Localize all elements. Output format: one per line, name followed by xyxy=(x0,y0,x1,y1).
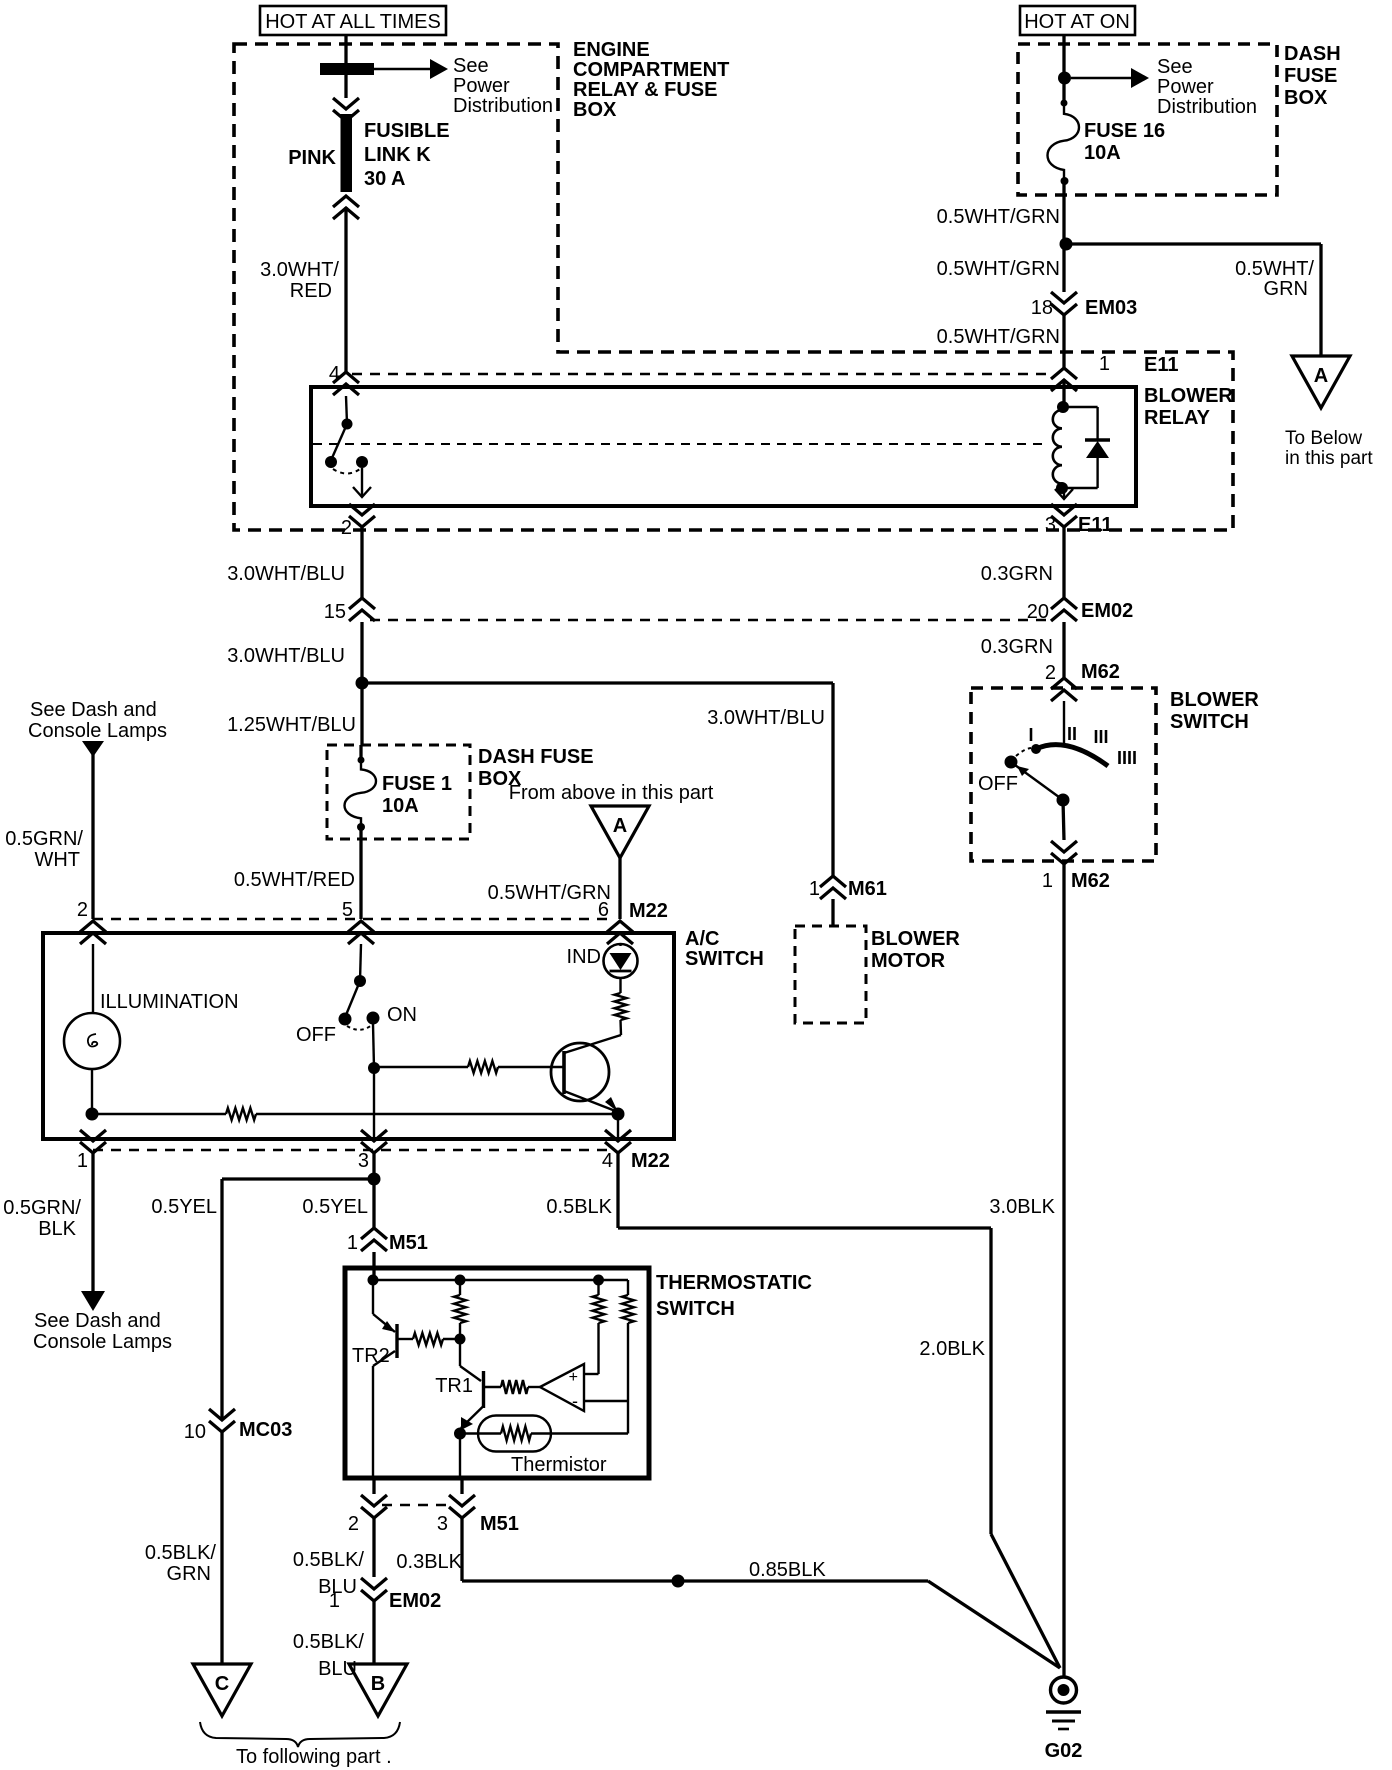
svg-text:Console Lamps: Console Lamps xyxy=(28,720,167,742)
reference triangle C xyxy=(193,1664,251,1716)
pin 4 chevrons xyxy=(605,1130,631,1141)
arrow from dash lamps xyxy=(82,741,104,757)
svg-text:0.5BLK: 0.5BLK xyxy=(546,1196,612,1218)
wire bus bar to fusible link xyxy=(344,75,347,98)
wire 0.3GRN to M62 xyxy=(1062,622,1065,678)
svg-text:2: 2 xyxy=(77,899,88,921)
svg-text:A: A xyxy=(613,815,627,837)
svg-text:0.5BLK/: 0.5BLK/ xyxy=(145,1542,217,1564)
svg-text:MOTOR: MOTOR xyxy=(871,950,946,972)
svg-text:0.3BLK: 0.3BLK xyxy=(396,1551,462,1573)
svg-text:1: 1 xyxy=(1099,353,1110,375)
connector E11 dashed face line (pin 4 to pin 1) xyxy=(352,373,1052,375)
svg-text:0.5WHT/GRN: 0.5WHT/GRN xyxy=(488,882,611,904)
engine compartment relay & fuse box dashed outline xyxy=(234,44,1233,530)
svg-text:BLOWER: BLOWER xyxy=(1170,689,1259,711)
connector M22 dashed face (pins 1,3,4) xyxy=(93,1149,614,1151)
svg-text:30 A: 30 A xyxy=(364,168,406,190)
pin 2 chevrons xyxy=(80,921,106,932)
svg-text:0.5YEL: 0.5YEL xyxy=(151,1196,217,1218)
blower relay box xyxy=(311,387,1136,506)
svg-text:DASH: DASH xyxy=(1284,43,1341,65)
svg-text:ON: ON xyxy=(387,1004,417,1026)
wire from HOT AT ALL TIMES to bus bar xyxy=(344,35,347,63)
svg-text:MC03: MC03 xyxy=(239,1419,292,1441)
connector 2 M51 xyxy=(372,1478,375,1494)
wire 3.0WHT/BLU relay pin2 down xyxy=(360,527,363,598)
wire 1.25WHT/BLU xyxy=(360,683,363,745)
svg-text:0.5YEL: 0.5YEL xyxy=(302,1196,368,1218)
wire 0.5WHT/GRN from triangle A to pin 6 xyxy=(618,858,621,919)
svg-text:3.0WHT/BLU: 3.0WHT/BLU xyxy=(227,645,345,667)
blower motor dashed box xyxy=(795,926,866,1023)
LED resistor xyxy=(615,993,627,1020)
OFF position xyxy=(1005,756,1018,769)
switch arm xyxy=(1015,765,1063,800)
transistor Q1 (A/C switch) xyxy=(551,1043,609,1101)
svg-text:PINK: PINK xyxy=(288,147,336,169)
svg-text:BOX: BOX xyxy=(1284,87,1328,109)
pin 2 chevrons xyxy=(349,504,375,515)
svg-text:10A: 10A xyxy=(382,795,419,817)
pin 6 chevrons xyxy=(607,921,633,932)
svg-text:I: I xyxy=(1028,725,1033,745)
svg-text:4: 4 xyxy=(602,1150,613,1172)
svg-text:Power: Power xyxy=(453,75,510,97)
blower switch rotary contact xyxy=(1063,701,1065,744)
connector M51 dashed face xyxy=(382,1504,452,1506)
wire 0.5BLK/GRN xyxy=(220,1432,223,1664)
svg-text:B: B xyxy=(371,1673,385,1695)
svg-text:3: 3 xyxy=(1045,514,1056,536)
ground G02 xyxy=(1051,1677,1077,1703)
svg-text:Distribution: Distribution xyxy=(453,95,553,117)
svg-text:BLOWER: BLOWER xyxy=(871,928,960,950)
pin 5 chevrons xyxy=(348,921,374,932)
relay contact arrow to pin 2 xyxy=(353,487,371,497)
svg-text:FUSIBLE: FUSIBLE xyxy=(364,120,450,142)
svg-text:See Dash and: See Dash and xyxy=(30,699,157,721)
svg-text:1: 1 xyxy=(1042,870,1053,892)
wire 0.5YEL junction xyxy=(372,1153,375,1228)
svg-text:SWITCH: SWITCH xyxy=(685,948,764,970)
svg-text:A/C: A/C xyxy=(685,928,719,950)
svg-text:in this part: in this part xyxy=(1285,448,1373,469)
svg-text:EM02: EM02 xyxy=(1081,600,1133,622)
base resistor xyxy=(374,1066,468,1068)
svg-text:6: 6 xyxy=(598,899,609,921)
lamp bottom junction xyxy=(86,1108,99,1121)
svg-text:3: 3 xyxy=(437,1513,448,1535)
junction node xyxy=(1058,72,1071,85)
svg-text:1: 1 xyxy=(77,1150,88,1172)
wire 0.5WHT/RED xyxy=(359,827,362,919)
A/C switch box xyxy=(43,933,674,1139)
arrow to See Power Distribution xyxy=(374,68,430,70)
svg-text:3: 3 xyxy=(358,1150,369,1172)
svg-text:2: 2 xyxy=(1045,662,1056,684)
svg-text:0.3GRN: 0.3GRN xyxy=(981,636,1053,658)
svg-text:To following part .: To following part . xyxy=(236,1746,392,1768)
svg-text:III: III xyxy=(1093,727,1108,747)
wire 0.5BLK/BLU xyxy=(372,1518,375,1577)
op-amp - input feed resistor xyxy=(584,1400,628,1402)
left divider resistor xyxy=(459,1280,461,1295)
wire 0.85BLK xyxy=(462,1579,928,1582)
svg-text:RELAY & FUSE: RELAY & FUSE xyxy=(573,79,717,101)
wire 0.5WHT/GRN to E11 pin 1 xyxy=(1062,315,1065,368)
wire 0.5BLK xyxy=(616,1153,619,1228)
svg-text:1: 1 xyxy=(809,878,820,900)
svg-text:0.5BLK/: 0.5BLK/ xyxy=(293,1549,365,1571)
svg-text:ENGINE: ENGINE xyxy=(573,39,650,61)
relay coil xyxy=(1062,390,1065,407)
svg-text:HOT AT ALL TIMES: HOT AT ALL TIMES xyxy=(265,11,441,33)
svg-text:18: 18 xyxy=(1031,297,1053,319)
label HOT AT ON xyxy=(1020,6,1135,35)
TR1 base resistor xyxy=(484,1386,502,1388)
svg-text:M61: M61 xyxy=(848,878,887,900)
pin 3 chevrons xyxy=(361,1130,387,1141)
wire diagonal to ground xyxy=(991,1534,1060,1668)
svg-text:2.0BLK: 2.0BLK xyxy=(919,1338,985,1360)
blower switch dashed box xyxy=(971,688,1156,861)
wire 0.5WHT/GRN to EM03 xyxy=(1062,244,1065,292)
svg-text:M51: M51 xyxy=(389,1232,428,1254)
connector 3 M51 xyxy=(460,1478,463,1494)
relay coil suppression diode xyxy=(1063,406,1098,408)
svg-text:+: + xyxy=(569,1369,578,1386)
dash fuse box (fuse 1) dashed outline xyxy=(327,745,470,839)
wire 3.0BLK xyxy=(1062,864,1065,1677)
svg-text:TR1: TR1 xyxy=(435,1375,473,1397)
thermistor xyxy=(454,1428,466,1440)
svg-text:0.5WHT/: 0.5WHT/ xyxy=(1235,258,1314,280)
svg-text:M22: M22 xyxy=(631,1150,670,1172)
svg-text:1.25WHT/BLU: 1.25WHT/BLU xyxy=(227,714,356,736)
svg-text:COMPARTMENT: COMPARTMENT xyxy=(573,59,729,81)
svg-text:II: II xyxy=(1067,724,1077,744)
svg-text:BOX: BOX xyxy=(573,99,617,121)
svg-text:3.0WHT/: 3.0WHT/ xyxy=(260,259,339,281)
svg-text:Power: Power xyxy=(1157,76,1214,98)
svg-text:OFF: OFF xyxy=(296,1024,336,1046)
svg-text:See Dash and: See Dash and xyxy=(34,1310,161,1332)
svg-text:0.3GRN: 0.3GRN xyxy=(981,563,1053,585)
svg-text:A: A xyxy=(1314,365,1328,387)
svg-text:SWITCH: SWITCH xyxy=(1170,711,1249,733)
svg-text:DASH FUSE: DASH FUSE xyxy=(478,746,594,768)
svg-text:FUSE: FUSE xyxy=(1284,65,1337,87)
svg-text:G02: G02 xyxy=(1045,1740,1083,1762)
connector 1 EM02 xyxy=(361,1578,387,1589)
svg-text:IND: IND xyxy=(567,946,601,968)
svg-text:EM03: EM03 xyxy=(1085,297,1137,319)
junction to base resistor xyxy=(368,1062,380,1074)
svg-text:M62: M62 xyxy=(1071,870,1110,892)
pin 3 E11 chevrons xyxy=(1051,504,1077,515)
svg-text:HOT AT ON: HOT AT ON xyxy=(1024,11,1130,33)
svg-text:0.5BLK/: 0.5BLK/ xyxy=(293,1631,365,1653)
thermostatic switch box xyxy=(345,1268,649,1478)
wire 0.5WHT/GRN below fuse xyxy=(1062,181,1065,244)
transistor TR2 xyxy=(372,1280,374,1314)
svg-text:10: 10 xyxy=(184,1421,206,1443)
wire 3.0WHT/BLU to junction xyxy=(360,622,363,683)
bus bar xyxy=(320,63,374,75)
svg-text:E11: E11 xyxy=(1144,354,1178,376)
svg-text:BLOWER: BLOWER xyxy=(1144,385,1233,407)
svg-text:M62: M62 xyxy=(1081,661,1120,683)
svg-text:0.5WHT/GRN: 0.5WHT/GRN xyxy=(937,258,1060,280)
svg-text:FUSE 16: FUSE 16 xyxy=(1084,120,1165,142)
wire 3.0WHT/RED xyxy=(344,207,347,372)
svg-text:Thermistor: Thermistor xyxy=(511,1454,607,1476)
svg-text:E11: E11 xyxy=(1078,514,1112,536)
svg-text:LINK K: LINK K xyxy=(364,144,431,166)
svg-text:3.0WHT/BLU: 3.0WHT/BLU xyxy=(227,563,345,585)
illumination lamp xyxy=(92,944,94,1013)
top rail xyxy=(373,1279,628,1281)
svg-text:1: 1 xyxy=(329,1590,340,1612)
fuse 16 10A xyxy=(1062,78,1065,103)
wire 0.3GRN relay pin3 down xyxy=(1062,527,1065,598)
svg-text:Console Lamps: Console Lamps xyxy=(33,1331,172,1353)
dash fuse box dashed outline xyxy=(1018,44,1277,195)
svg-text:THERMOSTATIC: THERMOSTATIC xyxy=(656,1272,812,1294)
svg-text:2: 2 xyxy=(348,1513,359,1535)
relay pin 3 arrow xyxy=(1063,488,1065,499)
wire 0.5GRN/WHT xyxy=(91,752,94,919)
brace to following part xyxy=(200,1722,400,1747)
svg-text:1: 1 xyxy=(347,1232,358,1254)
connector M22 dashed face (pins 2,5,6) xyxy=(93,918,614,920)
connector chevrons above fusible link xyxy=(333,98,359,109)
wire 3.0WHT/BLU to blower motor xyxy=(362,681,833,684)
svg-text:TR2: TR2 xyxy=(352,1345,390,1367)
svg-text:M51: M51 xyxy=(480,1513,519,1535)
svg-text:3.0WHT/BLU: 3.0WHT/BLU xyxy=(707,707,825,729)
svg-text:GRN: GRN xyxy=(167,1563,211,1585)
wire branch to triangle A below xyxy=(1066,242,1321,245)
svg-text:0.5GRN/: 0.5GRN/ xyxy=(5,828,83,850)
A/C switch contact OFF/ON xyxy=(360,944,361,981)
connector chevrons below fusible link xyxy=(333,196,359,207)
arrow to See Dash and Console Lamps xyxy=(81,1291,105,1311)
svg-text:20: 20 xyxy=(1027,601,1049,623)
svg-text:FUSE 1: FUSE 1 xyxy=(382,773,452,795)
arrow to See Power Distribution xyxy=(1071,77,1131,79)
svg-text:OFF: OFF xyxy=(978,773,1018,795)
fuse 1 10A xyxy=(359,745,362,760)
svg-text:0.5WHT/GRN: 0.5WHT/GRN xyxy=(937,206,1060,228)
label HOT AT ALL TIMES xyxy=(260,6,446,35)
svg-text:BLK: BLK xyxy=(38,1218,76,1240)
svg-text:2: 2 xyxy=(341,517,352,539)
svg-text:From above in this part: From above in this part xyxy=(509,782,714,804)
svg-text:10A: 10A xyxy=(1084,142,1121,164)
svg-text:C: C xyxy=(215,1673,229,1695)
junction node to right branch xyxy=(1060,238,1073,251)
svg-text:See: See xyxy=(1157,56,1193,78)
transistor TR1 xyxy=(459,1339,461,1366)
junction node splice xyxy=(356,677,369,690)
svg-text:RELAY: RELAY xyxy=(1144,407,1211,429)
svg-text:ILLUMINATION: ILLUMINATION xyxy=(100,991,239,1013)
svg-text:0.5GRN/: 0.5GRN/ xyxy=(3,1197,81,1219)
svg-text:RED: RED xyxy=(290,280,332,302)
wire 0.3BLK xyxy=(460,1518,463,1581)
svg-text:GRN: GRN xyxy=(1264,278,1308,300)
reference triangle A (to below) xyxy=(1292,356,1350,408)
svg-text:WHT: WHT xyxy=(34,849,80,871)
svg-text:To Below: To Below xyxy=(1285,428,1362,449)
svg-text:See: See xyxy=(453,55,489,77)
pin 1 E11 chevrons xyxy=(1051,368,1077,379)
svg-text:M22: M22 xyxy=(629,900,668,922)
relay contact (switch) xyxy=(346,396,347,424)
relay internal dashed link line xyxy=(313,443,1048,445)
svg-text:0.5WHT/RED: 0.5WHT/RED xyxy=(234,869,355,891)
TR2 base resistor xyxy=(397,1338,413,1340)
fusible link K (thick bar) xyxy=(341,114,353,192)
wire into dash fuse box xyxy=(1062,35,1065,78)
relay contact dashed throw arc xyxy=(333,469,360,474)
svg-text:15: 15 xyxy=(324,601,346,623)
op-amp comparator xyxy=(540,1364,584,1411)
svg-text:SWITCH: SWITCH xyxy=(656,1298,735,1320)
svg-text:0.85BLK: 0.85BLK xyxy=(749,1559,826,1581)
wire 0.5BLK/BLU to triangle B xyxy=(372,1601,375,1664)
svg-text:0.5WHT/GRN: 0.5WHT/GRN xyxy=(937,326,1060,348)
bottom rail with resistor xyxy=(92,1113,226,1115)
svg-text:-: - xyxy=(572,1391,578,1411)
op-amp + input feed resistor xyxy=(584,1373,599,1375)
pin 1 chevrons xyxy=(80,1130,106,1141)
wire to pin 3 xyxy=(459,1434,461,1479)
connector 1 M62 xyxy=(1051,841,1077,852)
wire 0.5GRN/BLK xyxy=(91,1153,94,1291)
svg-text:IIII: IIII xyxy=(1117,748,1137,768)
svg-text:5: 5 xyxy=(342,899,353,921)
svg-text:EM02: EM02 xyxy=(389,1590,441,1612)
svg-text:3.0BLK: 3.0BLK xyxy=(989,1196,1055,1218)
svg-text:Distribution: Distribution xyxy=(1157,96,1257,118)
reference triangle B xyxy=(349,1664,407,1716)
EM02 dashed face line xyxy=(370,619,1048,621)
